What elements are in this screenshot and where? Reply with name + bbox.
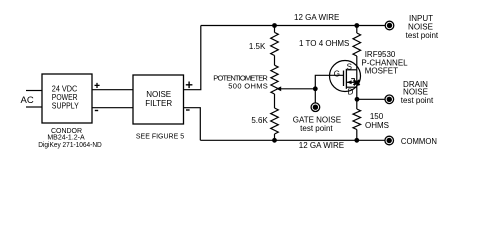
svg-text:12 GA WIRE: 12 GA WIRE [294,13,339,22]
test point TP common [385,136,394,145]
resistor R5 150 OHMS [353,109,361,130]
label GATE NOISE test point [293,116,341,133]
svg-text:1 TO 4 OHMS: 1 TO 4 OHMS [299,39,349,48]
transistor Q1 source stub [346,69,356,71]
wire PS1 plus to filter [92,89,133,91]
svg-text:AC: AC [21,95,34,106]
wire 12 GA top bus [201,25,385,27]
svg-text:test point: test point [401,96,434,105]
svg-text:FILTER: FILTER [145,99,172,108]
svg-text:OHMS: OHMS [365,121,389,130]
wire PS1 minus to filter [92,107,133,109]
test point TP input noise [385,21,394,30]
svg-text:test point: test point [406,31,439,40]
svg-text:500 OHMS: 500 OHMS [228,82,268,91]
transistor Q1 terminal line vertical [356,70,358,87]
svg-text:S: S [347,62,352,71]
svg-text:SEE FIGURE 5: SEE FIGURE 5 [136,134,184,141]
wire top bus to R4 [356,26,358,34]
potentiometer R2 500 ohms body [271,65,278,94]
svg-text:SUPPLY: SUPPLY [52,101,80,110]
test point TP gate noise [311,103,320,112]
wire 12 GA bottom bus [200,139,385,141]
power supply PS1 plus terminal label [95,83,100,88]
node junction top bus / divider chain [272,23,277,28]
svg-text:DigiKey 271-1064-ND: DigiKey 271-1064-ND [38,142,102,149]
svg-text:COMMON: COMMON [401,137,437,146]
noise filter U1 text [145,90,172,108]
wire R4 to mosfet source [356,56,358,70]
resistor R4 1 TO 4 OHMS [353,33,361,56]
wire filter plus output riser [184,26,201,90]
transistor Q1 channel bar [345,69,347,89]
wire drain node to test point [357,98,385,100]
svg-text:12 GA WIRE: 12 GA WIRE [299,141,344,150]
node gate junction [313,86,318,91]
svg-text:MB24-1.2-A: MB24-1.2-A [47,135,85,142]
transistor Q1 gate bar [343,71,345,87]
wire R1 to potentiometer [274,56,276,66]
label DRAIN NOISE test point [401,80,434,105]
wire R5 to bottom bus [356,130,358,141]
noise filter U1 plus terminal label [186,82,193,89]
wire R3 to bottom bus [274,134,276,140]
label INPUT NOISE test point [406,14,439,40]
label R2 POTENTIOMETER 500 OHMS [213,73,268,90]
wire gate node up to mosfet gate [315,75,343,89]
resistor R3 5.6K [271,108,279,134]
label Q1 IRF9530 P-CHANNEL MOSFET [361,50,408,76]
wire wiper to gate node [281,88,316,90]
power supply PS1 minus terminal label [95,110,98,111]
wire top bus to R1 [274,26,276,33]
svg-text:1.5K: 1.5K [249,42,266,51]
noise filter U1 minus terminal label [186,109,190,110]
node junction bottom bus / divider chain [272,138,277,143]
svg-text:NOISE: NOISE [146,90,171,99]
svg-text:MOSFET: MOSFET [365,67,398,76]
svg-text:NOISE: NOISE [408,22,433,31]
wire AC input upper [26,90,42,92]
wire filter minus output riser [184,108,201,141]
noise filter U1 box [133,75,184,124]
svg-text:G: G [334,69,340,78]
node junction bottom bus / mosfet branch [354,138,359,143]
node junction top bus / mosfet branch [354,23,359,28]
transistor Q1 IRF9530 circle [330,61,361,92]
svg-text:150: 150 [370,112,384,121]
svg-text:5.6K: 5.6K [251,116,268,125]
wire drain node to R5 [356,99,358,109]
power supply PS1 value label CONDOR [38,128,102,149]
wire gate node down to test point [314,89,316,103]
svg-text:D: D [348,88,354,97]
power supply PS1 box [42,74,92,123]
power supply PS1 text [52,84,80,110]
svg-text:test point: test point [300,124,333,133]
wire AC input lower [26,106,42,108]
transistor Q1 drain stub [346,86,356,88]
transistor Q1 body arrow [347,81,357,83]
resistor R1 1.5K [271,32,279,55]
potentiometer R2 wiper arrow [276,86,281,91]
label R5 value 150 OHMS [365,112,389,130]
wire mosfet drain to drain node [356,87,358,99]
wire potentiometer to R3 [274,94,276,108]
test point TP drain noise [385,95,394,104]
node drain junction [355,97,360,102]
